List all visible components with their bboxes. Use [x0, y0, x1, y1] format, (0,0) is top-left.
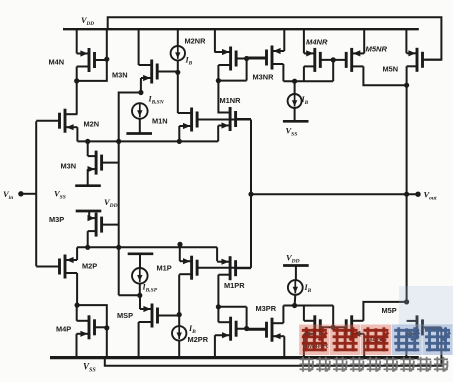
M5NR label: [366, 45, 388, 54]
ground IB right: [283, 120, 309, 123]
M1N label: [152, 116, 168, 125]
wire M4PR gate bus: [332, 306, 334, 328]
wire M4PR drain up: [303, 306, 305, 321]
node M4N drain junction: [74, 78, 79, 83]
svg-text:M4NR: M4NR: [306, 38, 328, 47]
svg-text:M1P: M1P: [157, 263, 172, 272]
M4PR label: [308, 341, 329, 350]
IB bottom label: [188, 324, 196, 335]
wire IB,SN to ground: [139, 119, 141, 134]
node Vin: [18, 191, 23, 196]
svg-text:VDD: VDD: [286, 253, 300, 265]
node M2NR drain junction: [216, 78, 221, 83]
wire IB to M1P drain: [178, 275, 180, 326]
VSS label right top: [286, 126, 298, 138]
svg-text:Vin: Vin: [3, 189, 13, 201]
Vout label: [424, 190, 437, 202]
wire P tail rail: [77, 246, 217, 248]
wire M1P source up: [179, 244, 181, 261]
node M2P drain junction: [75, 303, 80, 308]
wire M5N source to VDD: [405, 29, 407, 53]
svg-text:VDD: VDD: [104, 197, 118, 209]
wire M3P drain to tail: [87, 231, 89, 247]
M2N label: [84, 120, 100, 129]
wire P mirror gate segment: [218, 306, 246, 308]
wire M3N drain from tail: [87, 141, 89, 156]
wire M1PR drain down: [217, 275, 219, 307]
M2PR label: [188, 335, 209, 344]
wire MSP drain to VSS: [138, 322, 140, 358]
M3NR label: [253, 72, 275, 81]
node Vout: [415, 192, 420, 197]
transistor M2PR: [215, 317, 266, 341]
wire output column: [406, 66, 408, 302]
wire follower bus top corner: [119, 93, 141, 142]
node M4PR gate tap: [331, 325, 336, 330]
node M3P gate crossing: [116, 245, 121, 250]
wire M4NR gate bus: [332, 60, 334, 81]
VDD bar left-mid: [76, 210, 102, 213]
wire P diode wire: [283, 305, 333, 307]
VDD bar IB,SP: [128, 252, 154, 255]
svg-text:M3P: M3P: [49, 215, 64, 224]
transistor M3NR: [247, 46, 285, 70]
node M2PR drain junction: [216, 304, 221, 309]
VDD bar right bottom: [283, 264, 309, 267]
wire M2PR source to VSS: [214, 335, 216, 357]
svg-text:VSS: VSS: [83, 362, 96, 374]
svg-text:IB: IB: [185, 56, 193, 67]
MSN label: [112, 71, 128, 80]
node M3P drain tap: [85, 245, 90, 250]
wire MSP source up: [139, 295, 141, 309]
node MSP gate tap: [177, 312, 182, 317]
transistor M1NR: [218, 107, 251, 131]
VDD label left-mid: [104, 197, 118, 209]
MSP label: [117, 311, 133, 320]
node M3N drain tap: [85, 139, 90, 144]
transistor MSP: [139, 304, 180, 328]
wire M3NR source to VDD: [283, 29, 285, 51]
svg-text:M4N: M4N: [49, 58, 65, 67]
wire gates to output: [250, 120, 252, 268]
wire input gate vertical: [35, 121, 37, 266]
current source IB,SP: [132, 268, 148, 284]
svg-text:IB: IB: [188, 324, 196, 335]
wire M4P diode column: [77, 305, 107, 358]
svg-text:M3N: M3N: [112, 71, 128, 80]
node R-gate tap N: [244, 56, 249, 61]
wire M4PR source to VSS: [303, 334, 305, 358]
transistor M5P: [406, 315, 441, 339]
transistor M5PR: [346, 315, 364, 339]
wire M4P source to VSS: [76, 334, 78, 358]
watermark logo and slogan: [299, 286, 453, 372]
node M1P source tap: [177, 242, 182, 247]
wire M2P drain down: [76, 273, 78, 305]
VDD rail: [63, 28, 419, 30]
M1P label: [157, 263, 172, 272]
IB right bottom label: [304, 283, 312, 294]
svg-text:M1N: M1N: [152, 116, 168, 125]
M3N label: [61, 162, 77, 171]
svg-text:MSP: MSP: [117, 311, 133, 320]
wire N mirror gate segment: [218, 80, 246, 82]
IB top label: [185, 56, 193, 67]
wire M4P drain up: [76, 305, 78, 321]
Vin label: [3, 189, 13, 201]
M4NR label: [306, 38, 328, 47]
transistor M1N: [178, 108, 251, 132]
transistor M4PR: [304, 315, 347, 339]
M2NR label: [185, 36, 207, 45]
transistor M1P: [179, 256, 251, 280]
wire to M2N drain: [76, 81, 78, 114]
wire M1N source down: [178, 126, 180, 141]
M5N label: [383, 64, 399, 73]
svg-text:M2N: M2N: [84, 120, 100, 129]
wire IB right top: [294, 81, 296, 94]
svg-text:VSS: VSS: [286, 126, 298, 138]
wire IB right bottom from bar: [295, 266, 297, 281]
wire M2P source up: [76, 247, 78, 260]
node MSN gate tap: [175, 70, 180, 75]
node MSP source: [137, 293, 142, 298]
M4P label: [56, 325, 71, 334]
svg-text:M5P: M5P: [382, 306, 397, 315]
transistor M4NR: [304, 48, 347, 72]
M2P label: [82, 261, 97, 270]
wire R-gate bus N: [246, 59, 248, 81]
transistor M2NR: [215, 47, 266, 71]
node MSN source: [138, 90, 143, 95]
node M5N drain junction: [404, 83, 409, 88]
wire IB bottom from VSS: [178, 341, 180, 358]
svg-text:Vout: Vout: [424, 190, 437, 202]
svg-text:M2NR: M2NR: [185, 36, 207, 45]
wire M2NR source from VDD: [214, 29, 216, 52]
svg-text:VDD: VDD: [81, 16, 94, 27]
wire Vin to gate bus: [21, 193, 36, 195]
svg-text:IB: IB: [304, 283, 312, 294]
current source IB bottom: [172, 326, 186, 340]
svg-text:M1PR: M1PR: [224, 281, 245, 290]
svg-text:M3NR: M3NR: [253, 72, 275, 81]
wire M4N drain down: [76, 67, 78, 82]
node output gate crossing: [248, 192, 253, 197]
transistor M1PR: [217, 256, 251, 280]
wire N diode wire: [283, 80, 333, 82]
svg-text:M3PR: M3PR: [256, 304, 277, 313]
wire M4N diode column: [77, 29, 107, 81]
IB right top label: [301, 95, 309, 106]
node IB right tap N: [292, 79, 297, 84]
transistor M3N: [88, 151, 119, 175]
transistor MSN: [139, 60, 178, 84]
svg-text:IB,SP: IB,SP: [142, 283, 158, 294]
svg-text:M2P: M2P: [82, 261, 97, 270]
node M4P gate tap: [104, 325, 109, 330]
wire M5NR drain down: [363, 66, 406, 85]
wire R-gate bus P: [246, 307, 248, 329]
wire M3N source to ground: [87, 169, 89, 186]
svg-text:M1NR: M1NR: [220, 96, 242, 105]
VSS label left: [54, 189, 66, 201]
transistor M5N: [406, 48, 441, 72]
wire M1N-M1NR gate link: [197, 119, 251, 121]
IB,SP label: [142, 283, 158, 294]
node M4NR gate tap: [331, 57, 336, 62]
transistor M4P: [77, 315, 107, 339]
wire IB,SP to node: [139, 284, 141, 296]
wire IB top from VDD: [177, 29, 179, 46]
svg-text:VSS: VSS: [54, 189, 66, 201]
transistor M2P: [36, 255, 77, 279]
node R-gate tap P: [244, 326, 249, 331]
wire follower bus bottom corner: [119, 294, 140, 296]
bottom outer rail with step: [105, 328, 442, 366]
ground IB,SN: [126, 132, 152, 135]
wire M1NR source down: [217, 126, 219, 142]
transistor M4N: [77, 48, 107, 72]
ground M3N source: [75, 184, 101, 187]
wire N tail rail: [77, 140, 218, 142]
wire M4NR drain down: [303, 66, 305, 81]
VDD label: [81, 16, 94, 27]
wire follower gate bus: [118, 141, 120, 295]
M4N label: [49, 58, 65, 67]
M1PR label: [224, 281, 245, 290]
M1NR label: [220, 96, 242, 105]
wire MSN drain to VDD: [138, 29, 140, 65]
node follower bus crossing N: [116, 139, 121, 144]
wire IB to M1N drain: [177, 60, 179, 113]
svg-text:M3N: M3N: [61, 162, 77, 171]
wire M3NR drain down: [282, 64, 284, 81]
node M4N gate tap: [104, 57, 109, 62]
svg-text:IB,SN: IB,SN: [148, 95, 165, 106]
M5P label: [382, 306, 397, 315]
wire M2NR drain down: [217, 65, 219, 81]
IB,SN label: [148, 95, 165, 106]
wire M5NR source to VDD: [363, 29, 365, 53]
svg-text:M2PR: M2PR: [188, 335, 209, 344]
svg-text:M5N: M5N: [383, 64, 399, 73]
current source IB top: [171, 46, 185, 60]
current source IB,SN: [132, 103, 148, 119]
wire MSN source down: [140, 78, 142, 93]
wire M1PR source up: [216, 247, 218, 261]
current source IB right top: [288, 94, 302, 108]
wire M3P source from VDD bar: [88, 211, 90, 218]
svg-text:M4P: M4P: [56, 325, 71, 334]
node output crossing: [404, 192, 409, 197]
wire M5PR drain up: [363, 302, 406, 321]
M5PR label: [366, 336, 388, 345]
VSS rail: [50, 356, 419, 359]
current source IB right bottom: [288, 280, 303, 295]
top outer rail with step: [108, 17, 442, 59]
node M5P drain junction: [404, 299, 409, 304]
transistor M2N: [36, 109, 77, 133]
wire output horizontal: [251, 193, 418, 195]
wire IB,SP from bar: [139, 254, 141, 268]
VSS label bottom: [83, 362, 96, 374]
transistor M5NR: [346, 48, 364, 72]
M3P label: [49, 215, 64, 224]
wire M1NR drain: [218, 81, 230, 113]
svg-text:M5NR: M5NR: [366, 45, 388, 54]
wire M4NR source from VDD: [303, 29, 305, 53]
M3PR label: [256, 304, 277, 313]
VDD label right bottom: [286, 253, 300, 265]
wire M3PR source to VSS: [283, 336, 285, 357]
wire M3PR drain up: [282, 306, 284, 324]
node M1N source on tail wire: [177, 139, 182, 144]
wire IB right to ground: [294, 108, 296, 121]
transistor M3PR: [247, 318, 285, 342]
wire M5P source to VSS: [405, 334, 407, 358]
node IB right tap P: [292, 303, 297, 308]
wire M5PR source to VSS: [363, 334, 365, 358]
wire IB right bottom to node: [294, 295, 297, 306]
wire M2N source down: [76, 127, 78, 141]
transistor M3P: [88, 213, 119, 237]
wire M4N source from VDD: [76, 29, 78, 53]
wire M2PR drain up: [217, 307, 219, 322]
